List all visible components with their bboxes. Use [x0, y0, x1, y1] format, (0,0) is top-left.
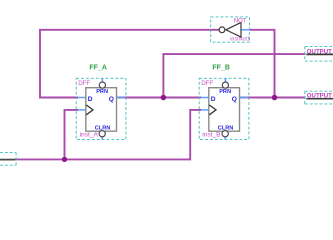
svg-text:DFF: DFF	[78, 80, 90, 87]
svg-text:instNot1: instNot1	[230, 36, 250, 42]
svg-text:CLRN: CLRN	[218, 125, 234, 131]
svg-text:CLRN: CLRN	[95, 125, 111, 131]
svg-text:inst_B: inst_B	[202, 132, 221, 139]
svg-text:FF_A: FF_A	[89, 64, 107, 71]
svg-text:D: D	[88, 96, 93, 103]
svg-text:D: D	[211, 96, 216, 103]
svg-text:PRN: PRN	[219, 89, 231, 95]
svg-text:PRN: PRN	[96, 89, 108, 95]
svg-text:Q: Q	[109, 96, 114, 103]
svg-text:Q: Q	[232, 96, 237, 103]
svg-text:OUTPUT: OUTPUT	[307, 93, 332, 100]
svg-text:NOT: NOT	[234, 19, 247, 25]
svg-text:OUTPUT: OUTPUT	[307, 48, 332, 55]
svg-text:DFF: DFF	[201, 80, 213, 87]
svg-text:FF_B: FF_B	[212, 64, 230, 71]
svg-text:inst_A: inst_A	[80, 132, 99, 139]
